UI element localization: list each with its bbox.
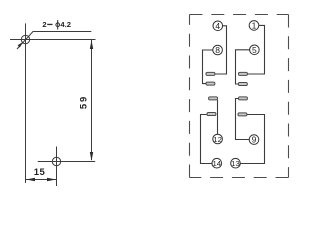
contact bar D-left [207, 113, 216, 116]
svg-text:9: 9 [252, 135, 257, 145]
pin 9 circle [249, 135, 259, 145]
dashed outline right [288, 15, 290, 178]
dashed outline left [189, 15, 191, 178]
dashed outline top [190, 14, 289, 16]
svg-text:4: 4 [215, 21, 220, 31]
svg-text:1: 1 [252, 20, 257, 30]
pin 12 circle [213, 134, 223, 144]
svg-text:8: 8 [215, 45, 220, 55]
centerline vertical through top hole / extension for 15 dim [25, 23, 27, 183]
bottom hole circle [52, 157, 60, 165]
svg-text:4.2: 4.2 [60, 20, 71, 29]
label dash [47, 24, 52, 25]
wire pin5 to contact B-right [236, 50, 250, 84]
svg-text:14: 14 [213, 159, 222, 168]
contact bar B-right [238, 83, 247, 86]
hole top-left circle [21, 35, 29, 43]
svg-text:15: 15 [34, 167, 46, 178]
dashed outline bottom [190, 177, 289, 179]
wire pin13 to contact D-right [240, 115, 264, 164]
svg-text:59: 59 [79, 95, 90, 109]
dimension line 15 horizontal [26, 179, 57, 181]
wire pin14 to contact D-left [201, 115, 213, 164]
svg-text:5: 5 [252, 45, 257, 55]
wire pin1 to contact A-right [247, 25, 264, 74]
wire pin12 to contact C-left [217, 100, 219, 134]
pin 4 circle [213, 21, 223, 31]
svg-text:2: 2 [42, 20, 46, 29]
wire pin9 to contact C-right [236, 99, 250, 140]
bottom hole vertical centerline [56, 147, 58, 187]
svg-text:12: 12 [213, 135, 222, 144]
contact bar B-left [206, 82, 215, 85]
dimension line 59 vertical [91, 40, 93, 160]
pin 8 circle [213, 45, 223, 55]
contact bar C-left [209, 97, 218, 100]
bottom hole horizontal centerline [38, 161, 95, 163]
wire pin4 to contact A-left [215, 26, 227, 74]
contact bar C-right [239, 97, 248, 100]
contact bar A-right [239, 72, 248, 75]
pin 5 circle [250, 45, 260, 55]
wire pin8 to contact B-left [203, 50, 213, 84]
centerline horizontal through top hole / extension for 59 dim [10, 39, 96, 41]
pin 13 circle [231, 158, 241, 168]
arrowhead on leader at hole [18, 42, 23, 47]
arrowhead down (59 bottom) [90, 152, 93, 161]
label phi symbol [56, 23, 60, 27]
pin 14 circle [212, 158, 222, 168]
leader line from top hole to label [17, 32, 91, 50]
arrowhead up (59 top) [90, 40, 93, 49]
svg-text:13: 13 [231, 159, 240, 168]
arrowhead right (15) [47, 178, 56, 182]
arrowhead left (15) [26, 178, 35, 182]
pin 1 circle [249, 21, 259, 31]
contact bar A-left [206, 72, 215, 75]
contact bar D-right [238, 113, 247, 116]
